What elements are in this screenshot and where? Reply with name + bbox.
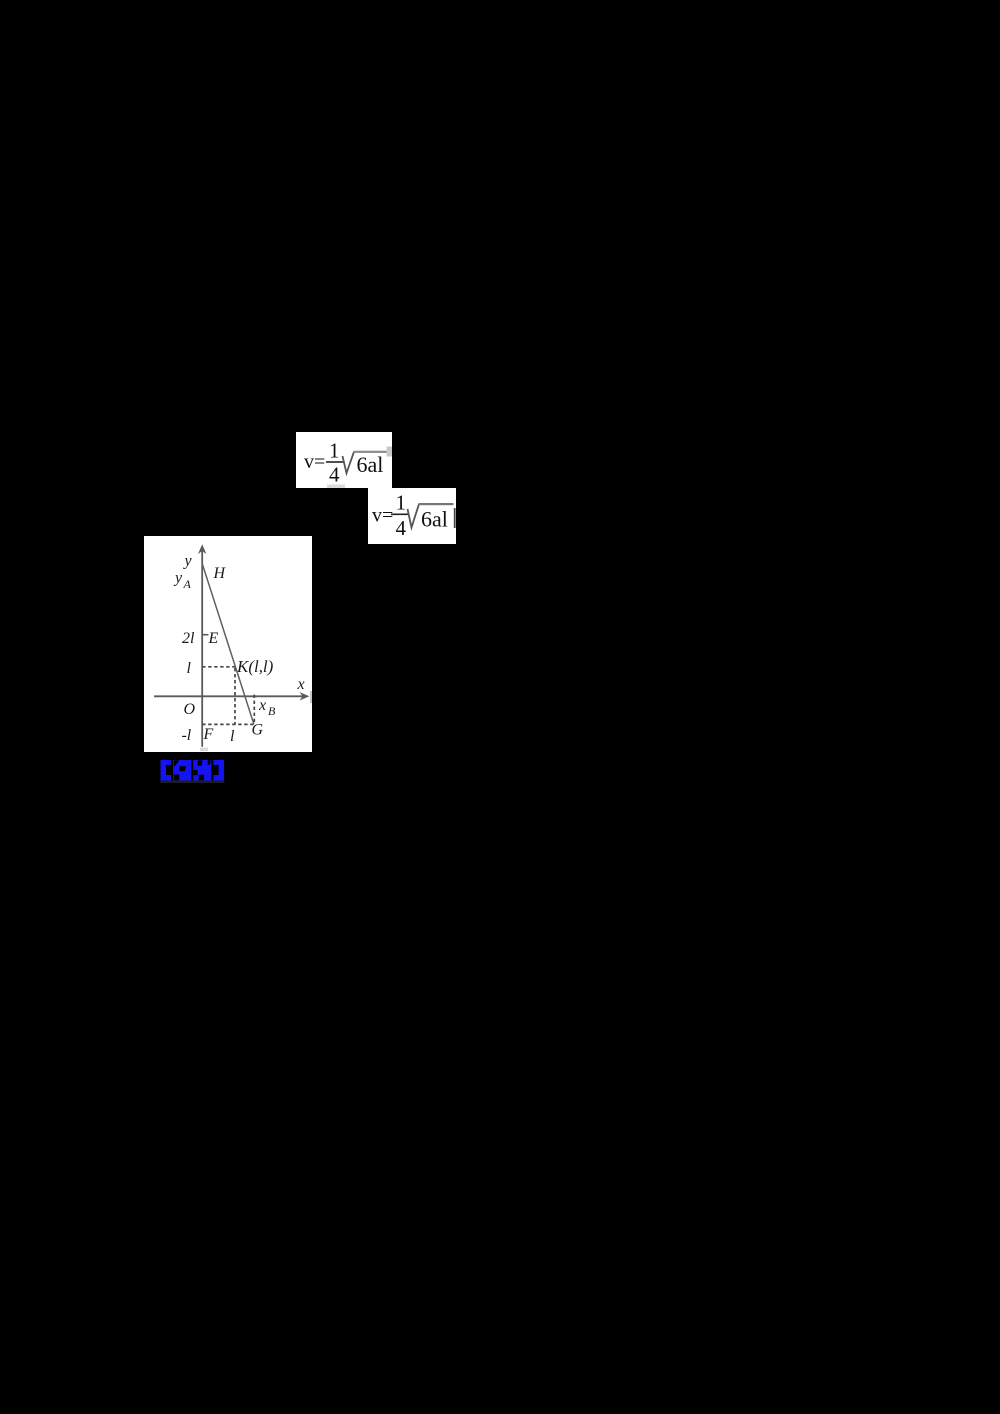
svg-text:H: H — [212, 565, 226, 582]
svg-text:A: A — [182, 577, 191, 591]
gray strip artifact bottom — [327, 485, 345, 489]
svg-text:x: x — [258, 697, 266, 714]
dashed line l to K — [202, 666, 235, 668]
radical overbar — [354, 451, 393, 453]
character glyph 3 — [193, 760, 211, 781]
dashed line F to G — [202, 723, 254, 725]
svg-text:F: F — [202, 726, 213, 743]
dashed line K down to F level — [234, 668, 236, 724]
svg-text:v=: v= — [304, 451, 325, 473]
svg-text:4: 4 — [329, 463, 340, 487]
x-axis — [154, 695, 305, 697]
svg-text:l: l — [230, 728, 235, 745]
fraction bar — [326, 461, 344, 463]
clipped character stroke at right edge — [454, 508, 456, 528]
svg-text:E: E — [207, 630, 218, 647]
y-axis arrowhead — [198, 544, 206, 554]
svg-text:4: 4 — [396, 516, 407, 540]
dashed line xB down — [253, 694, 255, 723]
svg-text:y: y — [182, 552, 192, 569]
formula box 1: v = (1/4)sqrt(6al) — [296, 432, 392, 488]
right bracket glyph — [213, 760, 224, 781]
svg-text:x: x — [296, 676, 304, 693]
gray block artifact right — [387, 447, 393, 457]
radical sign — [408, 504, 420, 528]
gray bar artifact right of x arrow — [310, 691, 312, 703]
gray square artifact at y-axis bottom — [200, 747, 208, 751]
graph panel — [144, 536, 312, 752]
svg-text:6al: 6al — [357, 452, 384, 477]
y-axis — [201, 549, 203, 747]
svg-text:-l: -l — [181, 727, 191, 744]
character glyph 2 — [173, 760, 191, 781]
svg-text:O: O — [183, 701, 195, 718]
svg-text:l: l — [186, 660, 191, 677]
fraction bar — [391, 514, 409, 516]
left bracket glyph — [160, 760, 171, 781]
blue label block — [160, 760, 225, 783]
x-axis arrowhead — [299, 692, 309, 700]
svg-text:K(l,l): K(l,l) — [236, 657, 274, 676]
radical overbar — [419, 503, 454, 505]
svg-text:1: 1 — [396, 491, 407, 515]
svg-text:B: B — [268, 704, 276, 718]
svg-text:1: 1 — [329, 439, 340, 463]
svg-text:2l: 2l — [182, 630, 195, 647]
tick at 2l (E) — [202, 633, 208, 635]
svg-text:v=: v= — [372, 505, 393, 527]
svg-text:y: y — [173, 569, 183, 586]
formula box 2: v = (1/4)sqrt(6al) — [368, 488, 456, 544]
svg-text:G: G — [251, 721, 263, 738]
radical sign — [343, 452, 355, 474]
dark underline strip — [160, 780, 224, 783]
slanted line H to G — [202, 564, 253, 724]
svg-text:6al: 6al — [421, 507, 448, 532]
